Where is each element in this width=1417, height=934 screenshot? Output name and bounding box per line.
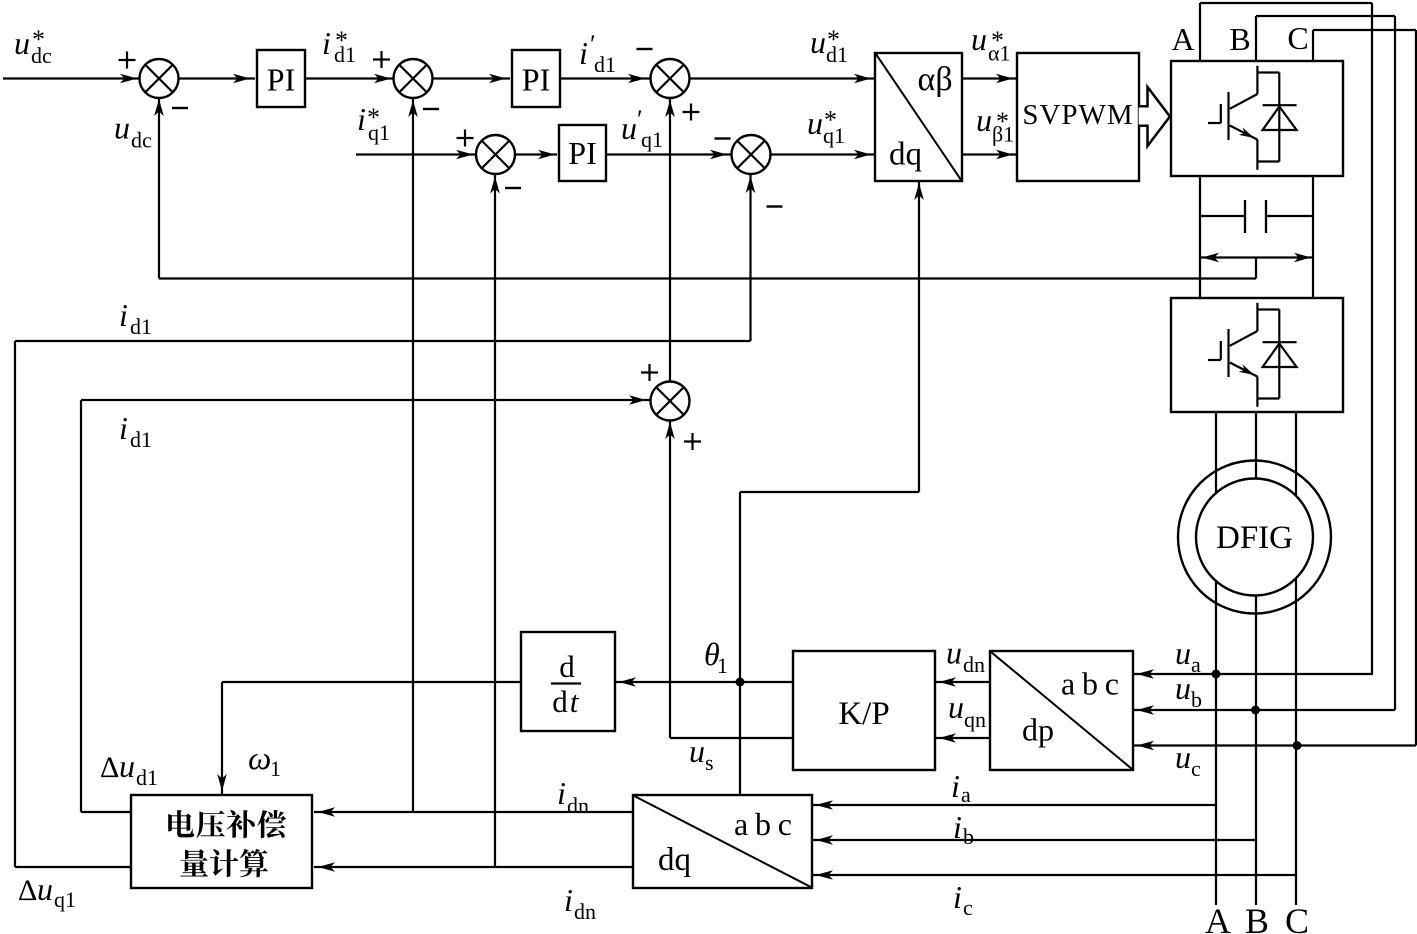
node summing junction S6 [651, 382, 690, 421]
wire rotor phase a [1215, 412, 1217, 905]
svg-text:PI: PI [568, 135, 596, 171]
svg-text:dn: dn [574, 899, 596, 924]
wire DC rail right [1312, 176, 1314, 298]
svg-text:αβ: αβ [918, 61, 953, 98]
svg-text:d: d [552, 684, 568, 719]
symbol IGBT with diode in converter Q2 [1256, 303, 1258, 331]
wire i*q1 input [356, 153, 476, 155]
svg-text:i: i [119, 410, 128, 446]
block K/P U4 [793, 651, 935, 770]
node summing junction S4 [476, 135, 515, 174]
svg-text:d1: d1 [594, 52, 616, 77]
block dq-to-alphabeta transform U1 [875, 53, 962, 181]
block voltage compensation calculator U6 [131, 795, 312, 888]
svg-text:c: c [1191, 756, 1201, 781]
label + at S6 left [641, 371, 658, 373]
wire S2 to PI2 [433, 77, 511, 79]
wire delta-u_d1 output [81, 811, 131, 813]
svg-text:PI: PI [522, 62, 550, 98]
label - at S4 feedback [505, 187, 521, 189]
block abc-to-dp transform U3 [990, 651, 1133, 770]
wire S3 to ab/dq transform [690, 77, 876, 79]
svg-text:u: u [807, 105, 823, 141]
svg-text:u: u [621, 110, 637, 146]
symbol block arrow SVPWM to converter [1139, 87, 1170, 146]
svg-text:1: 1 [717, 653, 728, 678]
wire u*dc input [3, 77, 140, 79]
svg-text:DFIG: DFIG [1216, 520, 1293, 556]
wire PI1 to S2 [305, 77, 394, 79]
node summing junction S1 [140, 59, 179, 98]
capacitor DC link C1 [1200, 215, 1245, 217]
svg-text:d1: d1 [136, 765, 158, 790]
svg-text:u: u [1175, 670, 1191, 706]
block abc-to-dq transform U7 [633, 795, 812, 888]
wire phase A top [1199, 3, 1201, 61]
block PI3 [559, 125, 606, 181]
wire DC rail left [1199, 176, 1201, 298]
label + at S1 input [119, 59, 136, 61]
wire theta1 down to abc/dq [739, 682, 741, 795]
wire u_b [1133, 709, 1395, 711]
svg-text:u: u [689, 733, 705, 769]
svg-text:*: * [32, 25, 45, 54]
label - at S3 input [637, 48, 653, 50]
block SVPWM U2 [1017, 53, 1139, 181]
svg-text:t: t [570, 684, 580, 719]
wire rotor phase c [1295, 412, 1297, 905]
svg-text:1: 1 [270, 756, 281, 781]
wire i_b [812, 839, 1256, 841]
svg-text:a b c: a b c [734, 806, 792, 842]
label + at S4 input [457, 137, 474, 139]
svg-text:a: a [961, 782, 971, 807]
wire S4 to PI3 [515, 153, 557, 155]
wire PI2 to S3 [560, 77, 651, 79]
svg-text:C: C [1285, 901, 1309, 934]
svg-text:B: B [1229, 21, 1250, 57]
label - at S5 feedback [767, 205, 783, 207]
svg-text:u: u [119, 748, 135, 784]
svg-text:*: * [996, 107, 1009, 136]
svg-text:B: B [1245, 901, 1269, 934]
block PI1 [257, 50, 305, 107]
svg-text:dq: dq [658, 842, 691, 878]
wire u_dn [935, 681, 990, 683]
wire u_dc feedback [159, 277, 1256, 279]
svg-text:i: i [953, 879, 962, 915]
wire i_dn q input [314, 866, 633, 868]
wire rotor phase b [1255, 412, 1257, 905]
node summing junction S3 [651, 59, 690, 98]
svg-text:i: i [557, 775, 566, 811]
wire u_c [1133, 744, 1416, 746]
wire u_qn [935, 737, 990, 739]
wire K/P u_s output [670, 737, 793, 739]
svg-text:K/P: K/P [838, 696, 889, 732]
svg-text:i: i [564, 882, 573, 918]
svg-text:q1: q1 [54, 887, 76, 912]
svg-text:A: A [1205, 901, 1231, 934]
wire u_a [1133, 673, 1373, 675]
svg-text:d1: d1 [130, 427, 152, 452]
wire i_a [812, 804, 1216, 806]
block rotor-side converter Q2 [1171, 298, 1343, 412]
svg-text:u: u [971, 21, 987, 57]
wire i_dn d input [314, 811, 633, 813]
svg-text:u: u [14, 25, 30, 61]
wire S5 to ab/dq transform [771, 153, 876, 155]
label + at S2 input [373, 58, 390, 60]
node dot u_b tap [1251, 706, 1260, 715]
label - at S1 feedback [172, 107, 188, 109]
wire u_dc tap [1255, 258, 1257, 279]
node dot u_c tap [1293, 741, 1302, 750]
svg-text:u: u [810, 24, 826, 60]
svg-text:u: u [37, 871, 53, 907]
wire PI3 to S5 [606, 153, 732, 155]
svg-text:i: i [579, 35, 588, 71]
svg-text:d: d [559, 649, 575, 684]
svg-text:PI: PI [267, 62, 295, 98]
block PI2 [512, 50, 560, 107]
wire K/P theta1 output [615, 681, 793, 683]
wire u*beta1 [962, 153, 1017, 155]
node summing junction S5 [732, 135, 771, 174]
svg-text:q1: q1 [641, 127, 663, 152]
svg-text:u: u [1175, 635, 1191, 671]
wire delta-u_q1 output [15, 866, 131, 868]
wire phase B top [1255, 16, 1257, 61]
svg-text:u: u [948, 689, 964, 725]
svg-text:u: u [1175, 739, 1191, 775]
svg-text:dn: dn [963, 652, 985, 677]
svg-text:*: * [991, 26, 1004, 55]
wire i_dn to S2 [412, 98, 414, 812]
svg-text:*: * [367, 103, 380, 132]
svg-text:ω: ω [248, 741, 271, 777]
svg-text:i: i [322, 25, 331, 61]
svg-text:qn: qn [964, 707, 986, 732]
svg-text:a b c: a b c [1061, 666, 1119, 702]
wire i_qn to S4 [494, 175, 496, 868]
wire omega1 [222, 681, 521, 683]
symbol u_dc measuring double arrow [1200, 256, 1313, 258]
svg-text:dp: dp [1022, 712, 1054, 748]
svg-text:Δ: Δ [100, 751, 119, 784]
machine DFIG G1 [1196, 479, 1313, 596]
svg-text:C: C [1287, 20, 1308, 56]
block grid-side converter Q1 [1171, 61, 1343, 176]
svg-text:b: b [963, 824, 974, 849]
symbol IGBT with diode in converter Q1 [1256, 66, 1258, 94]
label - at S2 feedback [423, 108, 439, 110]
svg-text:Δ: Δ [18, 874, 37, 907]
wire phase C top [1312, 30, 1314, 61]
svg-text:d1: d1 [130, 314, 152, 339]
svg-text:*: * [827, 25, 840, 54]
svg-text:i: i [357, 101, 366, 137]
svg-text:dq: dq [889, 137, 922, 173]
wire S1 to PI1 [179, 77, 256, 79]
svg-text:u: u [976, 102, 992, 138]
wire theta1 up to transform [739, 492, 741, 682]
node dot theta1 [736, 678, 745, 687]
wire i_c [812, 874, 1297, 876]
svg-text:s: s [705, 750, 714, 775]
block d/dt U5 [521, 632, 615, 731]
svg-text:c: c [963, 895, 973, 920]
label + at S3 feedforward [683, 111, 700, 113]
svg-text:i: i [119, 297, 128, 333]
svg-text:a: a [1191, 652, 1201, 677]
svg-text:*: * [335, 26, 348, 55]
svg-text:dc: dc [131, 128, 152, 153]
svg-text:i: i [953, 809, 962, 845]
svg-text:SVPWM: SVPWM [1022, 99, 1133, 131]
node dot u_a tap [1212, 670, 1221, 679]
svg-text:u: u [114, 110, 130, 146]
svg-text:A: A [1171, 21, 1194, 57]
label - at S5 input [715, 137, 731, 139]
svg-text:*: * [824, 106, 837, 135]
node summing junction S2 [394, 59, 433, 98]
label + at S6 bottom [684, 440, 701, 442]
wire u*alpha1 [962, 77, 1017, 79]
wire S6 to S3 [669, 98, 671, 382]
svg-text:u: u [946, 635, 962, 671]
svg-text:dn: dn [567, 793, 589, 818]
svg-text:b: b [1191, 687, 1202, 712]
svg-text:i: i [951, 768, 960, 804]
